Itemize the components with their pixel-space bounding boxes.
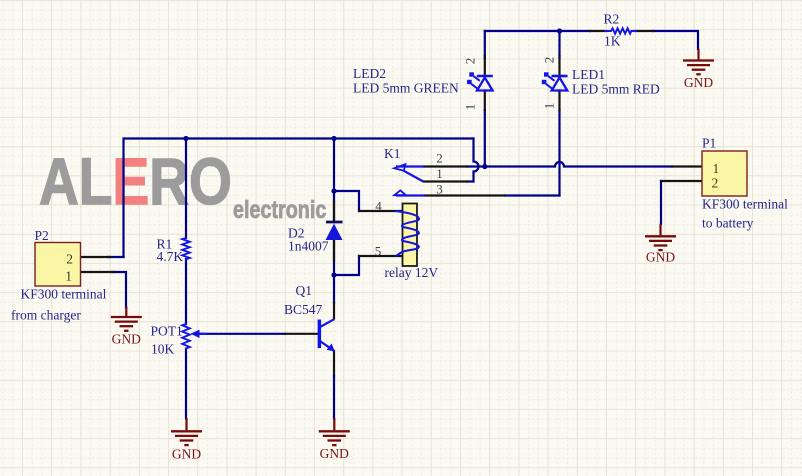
- wire P1 pin2 to ground: [660, 181, 662, 224]
- pin P1 pin2 line: [661, 180, 702, 182]
- ground symbol top right: [683, 49, 714, 75]
- junction D2 top: [331, 136, 336, 141]
- svg-text:GND: GND: [320, 446, 349, 461]
- wire relay pin4 elbow: [334, 191, 359, 211]
- junction R1 top: [183, 136, 188, 141]
- ground symbol POT1: [171, 418, 202, 445]
- svg-text:KF300 terminal: KF300 terminal: [21, 287, 107, 302]
- junction D2 anode node: [331, 272, 336, 277]
- pin K1 pin2 line: [424, 165, 467, 167]
- wire P2 pin2 to rail: [108, 256, 124, 258]
- svg-text:10K: 10K: [151, 342, 175, 357]
- resistor R2 zigzag: [606, 28, 637, 33]
- svg-text:P1: P1: [702, 136, 716, 151]
- wire D2 branch from rail: [333, 139, 335, 223]
- svg-text:2: 2: [542, 57, 557, 64]
- resistor R1 zigzag: [182, 238, 190, 259]
- svg-text:from charger: from charger: [11, 308, 81, 323]
- pin LED1 leads: [558, 56, 560, 110]
- wire R2 right to top ground: [653, 31, 698, 49]
- svg-text:1n4007: 1n4007: [288, 239, 329, 254]
- wire LED1 vertical: [558, 31, 560, 196]
- wire Q1 emitter to ground: [333, 351, 335, 376]
- svg-text:R2: R2: [604, 12, 620, 27]
- svg-text:2: 2: [463, 58, 478, 65]
- svg-text:3: 3: [436, 182, 443, 197]
- logo electronic: [233, 198, 326, 223]
- svg-text:1: 1: [463, 104, 478, 111]
- wire K1 pole vertical with hop over horizontal: [467, 139, 479, 182]
- relay K1 switch symbol: [394, 164, 425, 195]
- svg-text:LED 5mm RED: LED 5mm RED: [572, 82, 660, 97]
- pin relay pin4 line: [359, 210, 401, 212]
- wire top LED rail to R2: [485, 30, 590, 32]
- diode D2 symbol: [326, 200, 343, 262]
- pin K1 pin1 line: [424, 180, 467, 182]
- svg-text:BC547: BC547: [284, 302, 323, 317]
- wire relay pin5 elbow: [334, 256, 359, 275]
- LED1 symbol: [542, 72, 568, 90]
- svg-text:GND: GND: [112, 332, 141, 347]
- connector P1 box: [702, 151, 747, 196]
- wire 12V top rail from P2 to K1 pole: [124, 139, 474, 258]
- pin relay pin5 line: [359, 255, 401, 257]
- wire Q1 collector: [333, 275, 335, 303]
- wire D2 anode to node: [333, 241, 335, 275]
- svg-text:POT1: POT1: [151, 324, 183, 339]
- logo ALERO: [39, 148, 232, 214]
- svg-text:1K: 1K: [604, 34, 621, 49]
- relay K1 coil winding: [396, 211, 420, 256]
- wire R1 bottom to POT1: [185, 259, 187, 324]
- wire R1 top branch: [185, 139, 187, 239]
- wire POT1 to ground: [185, 349, 187, 419]
- svg-text:1: 1: [65, 269, 72, 284]
- pin Q1 base line: [285, 333, 317, 335]
- LED2 symbol: [467, 72, 493, 90]
- svg-text:Q1: Q1: [296, 283, 313, 298]
- ground symbol P2: [111, 306, 142, 330]
- svg-text:relay 12V: relay 12V: [385, 265, 439, 280]
- junction LED1 top: [557, 28, 562, 33]
- svg-text:4.7K: 4.7K: [157, 249, 184, 264]
- wire K1 pin3 to LED1: [505, 194, 560, 196]
- transistor Q1 symbol: [318, 319, 335, 351]
- relay K1 coil box: [403, 204, 418, 267]
- pin LED2 leads: [484, 56, 486, 110]
- svg-text:LED 5mm GREEN: LED 5mm GREEN: [353, 81, 459, 96]
- svg-text:2: 2: [436, 151, 443, 166]
- pin P1 pin1 line: [672, 165, 702, 167]
- wire LED2 cathode up to top rail: [484, 31, 486, 167]
- svg-text:2: 2: [712, 176, 719, 191]
- pin P2 pin1 line: [81, 271, 115, 273]
- svg-text:2: 2: [66, 252, 73, 267]
- svg-text:1: 1: [436, 166, 443, 181]
- svg-text:GND: GND: [172, 447, 201, 462]
- svg-text:GND: GND: [684, 75, 713, 90]
- potentiometer POT1 zigzag: [182, 324, 190, 348]
- svg-text:to battery: to battery: [702, 216, 754, 231]
- connector P2 box: [35, 243, 81, 287]
- wire main horizontal K1 pin2 to P1 with hop at LED1: [467, 162, 672, 167]
- wire POT1 wiper to Q1 base: [198, 333, 285, 335]
- svg-text:5: 5: [375, 244, 382, 259]
- svg-text:1: 1: [713, 161, 720, 176]
- svg-text:1: 1: [542, 103, 557, 110]
- svg-text:P2: P2: [35, 228, 49, 243]
- junction relay pin4: [331, 188, 336, 193]
- svg-text:LED2: LED2: [353, 66, 386, 81]
- svg-text:KF300 terminal: KF300 terminal: [702, 197, 788, 212]
- svg-text:K1: K1: [384, 146, 401, 161]
- svg-text:4: 4: [375, 199, 382, 214]
- ground symbol Q1 emitter: [319, 418, 350, 445]
- pin P2 pin2 line: [81, 256, 111, 258]
- ground symbol P1: [645, 224, 676, 250]
- pin R2 leads: [590, 30, 653, 32]
- svg-text:LED1: LED1: [572, 67, 605, 82]
- svg-text:GND: GND: [646, 250, 675, 265]
- potentiometer POT1 wiper arrow: [191, 330, 208, 338]
- junction LED2 bottom: [482, 164, 487, 169]
- wire P2 pin1 to ground: [112, 272, 126, 308]
- pin K1 pin3 line: [425, 194, 505, 196]
